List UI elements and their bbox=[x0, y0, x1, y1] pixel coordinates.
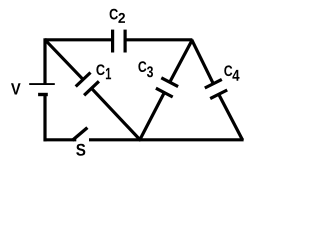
wire diagonal: node A to C1 upper plate bbox=[46, 41, 83, 80]
label V bbox=[11, 83, 21, 94]
label S bbox=[76, 144, 85, 156]
label C3 bbox=[138, 61, 153, 77]
wire diagonal: node B to C4 upper plate bbox=[192, 40, 214, 84]
label C2 bbox=[110, 9, 125, 23]
wire top: node A (top-left) to C2 left plate bbox=[45, 38, 112, 41]
switch S (open lever) bbox=[72, 128, 87, 141]
wire bottom: switch fixed contact to node C (bottom-center junction) bbox=[89, 138, 140, 141]
label C1 bbox=[96, 64, 111, 79]
capacitor C1 bbox=[76, 73, 99, 96]
battery V bbox=[29, 84, 55, 94]
wire top: C2 right plate to node B (top-right apex) bbox=[126, 38, 192, 41]
capacitor C3 bbox=[156, 78, 178, 97]
wire bottom: node C to node E (bottom-right corner) bbox=[140, 138, 244, 141]
label C4 bbox=[224, 65, 239, 80]
wire diagonal: node B to C3 upper plate bbox=[170, 40, 193, 82]
wire left: node A down to battery top plate bbox=[43, 38, 46, 84]
wire diagonal: C3 lower plate to node C bbox=[139, 93, 164, 141]
capacitor C4 bbox=[205, 79, 227, 98]
wire diagonal: C4 lower plate to node E bbox=[219, 94, 243, 140]
wire diagonal: C1 lower plate to node C bbox=[92, 88, 141, 140]
wire bottom: node D to switch pivot bbox=[44, 138, 77, 141]
capacitor C2 bbox=[113, 30, 126, 53]
wire left: battery bottom plate down to node D (bottom-left corner) bbox=[43, 95, 46, 142]
